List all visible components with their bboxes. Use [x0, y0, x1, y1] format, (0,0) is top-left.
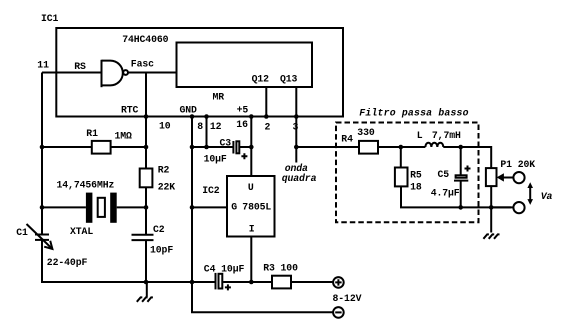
- wire R3 to plus terminal: [291, 281, 333, 283]
- terminal Va top: [513, 172, 524, 183]
- svg-text:Va: Va: [541, 191, 553, 202]
- wire R1 left lead: [42, 146, 92, 148]
- svg-text:Filtro passa basso: Filtro passa basso: [359, 107, 468, 118]
- wire ground to G pin: [192, 206, 227, 208]
- node onda quadra dot: [294, 145, 299, 150]
- resistor R3: [272, 276, 291, 289]
- node MR junction dot: [204, 145, 209, 150]
- node P1 bottom dot: [489, 205, 494, 210]
- svg-text:L: L: [417, 130, 423, 141]
- wire +5 column pin16 to regulator: [250, 117, 252, 177]
- wire input rail to R3: [251, 281, 272, 283]
- svg-text:8-12V: 8-12V: [333, 293, 362, 304]
- wire gate output to divider block: [128, 72, 177, 74]
- wire left column C1/R1/XTAL net: [41, 73, 43, 235]
- svg-text:C2: C2: [153, 224, 165, 235]
- wire Q13 pin 3: [295, 87, 297, 163]
- svg-text:8: 8: [197, 121, 203, 132]
- svg-text:16: 16: [236, 119, 248, 130]
- potentiometer P1: [486, 168, 497, 207]
- wire L to P1 column: [443, 147, 491, 168]
- svg-text:quadra: quadra: [282, 173, 317, 184]
- node L-C5 dot: [458, 145, 463, 150]
- wire pin10 to oscillator net: [145, 117, 147, 148]
- inductor L: [425, 143, 443, 147]
- node ground rail pin8 dot: [190, 280, 195, 285]
- node pin8 dot: [190, 114, 195, 119]
- node pin10 dot: [144, 114, 149, 119]
- wire R4 to L: [378, 146, 425, 148]
- terminal plus 8-12V: [333, 277, 344, 288]
- svg-text:R4: R4: [341, 133, 353, 144]
- svg-text:R3 100: R3 100: [263, 262, 298, 273]
- IC1 package outline 74HC4060: [56, 28, 343, 117]
- capacitor C2: [132, 207, 154, 282]
- wire onda quadra to R4: [296, 146, 359, 148]
- wire R1 right lead: [111, 146, 146, 148]
- svg-text:14,7456MHz: 14,7456MHz: [57, 179, 115, 190]
- wire RTC feedback drop inside package: [145, 73, 147, 117]
- svg-text:G: G: [231, 202, 237, 213]
- wire pin8 GND column: [191, 117, 193, 283]
- svg-text:12: 12: [210, 121, 222, 132]
- svg-text:10: 10: [159, 121, 171, 132]
- capacitor C4: [216, 273, 252, 291]
- node input rail dot: [249, 280, 254, 285]
- svg-text:18: 18: [410, 182, 422, 193]
- svg-text:C3: C3: [220, 137, 232, 148]
- wire C1 bottom to ground rail: [42, 240, 215, 282]
- node C5 bottom dot: [458, 205, 463, 210]
- node R1 left dot: [40, 145, 45, 150]
- node R4-R5-L dot: [399, 145, 404, 150]
- Va measurement arrow: [527, 182, 533, 205]
- resistor R2: [140, 147, 153, 207]
- svg-text:U: U: [248, 182, 254, 193]
- node pin2 dot: [264, 114, 269, 119]
- filter dashed box: [336, 123, 479, 223]
- svg-text:4.7µF: 4.7µF: [431, 188, 460, 199]
- svg-text:Fasc: Fasc: [131, 58, 154, 69]
- svg-text:IC2: IC2: [202, 185, 220, 196]
- node G dot: [190, 205, 195, 210]
- divider block of IC1: [177, 43, 313, 88]
- node pin12 dot: [204, 114, 209, 119]
- svg-text:22K: 22K: [158, 181, 176, 192]
- wire regulator input column: [250, 237, 252, 283]
- svg-text:Q13: Q13: [280, 73, 298, 84]
- node ground rail C2 dot: [144, 280, 149, 285]
- svg-text:GND: GND: [180, 105, 198, 116]
- svg-text:1MΩ: 1MΩ: [115, 130, 133, 141]
- crystal XTAL: [86, 193, 117, 223]
- capacitor C1 variable: [27, 224, 53, 249]
- node R1-R2 junction dot: [144, 145, 149, 150]
- terminal Va bottom: [513, 202, 524, 213]
- svg-text:330: 330: [357, 127, 375, 138]
- svg-text:R5: R5: [410, 170, 422, 181]
- svg-text:RTC: RTC: [121, 105, 139, 116]
- svg-text:10pF: 10pF: [150, 245, 173, 256]
- regulator IC2 7805L: [227, 176, 275, 237]
- wire ground net to C3: [192, 146, 233, 148]
- gate IC1a NAND oscillator: [102, 60, 129, 87]
- resistor R1: [92, 141, 111, 154]
- capacitor C5: [454, 147, 471, 207]
- wiper arrow of P1: [497, 173, 513, 181]
- wire minus rail: [192, 282, 333, 312]
- capacitor C3: [233, 141, 251, 159]
- svg-text:22-40pF: 22-40pF: [47, 257, 88, 268]
- svg-text:XTAL: XTAL: [70, 226, 93, 237]
- svg-text:I: I: [249, 224, 255, 235]
- wire bottom rail to Va terminal: [491, 206, 512, 208]
- svg-text:10µF: 10µF: [204, 153, 227, 164]
- svg-text:+5: +5: [237, 105, 249, 116]
- svg-text:C4 10µF: C4 10µF: [204, 264, 245, 275]
- wire Q12 pin 2: [265, 87, 267, 117]
- svg-text:11: 11: [37, 59, 49, 70]
- svg-text:IC1: IC1: [41, 13, 59, 24]
- wire RS input to gate: [42, 72, 102, 74]
- svg-text:R1: R1: [86, 128, 98, 139]
- node XTAL right dot: [144, 205, 149, 210]
- svg-text:R2: R2: [158, 164, 170, 175]
- svg-text:Q12: Q12: [252, 73, 270, 84]
- svg-text:7805L: 7805L: [242, 202, 271, 213]
- svg-text:74HC4060: 74HC4060: [122, 34, 168, 45]
- resistor R4: [359, 141, 378, 154]
- node C3 plus dot: [249, 145, 254, 150]
- wire pin12 MR column: [206, 117, 208, 148]
- svg-text:2: 2: [265, 121, 271, 132]
- ground symbol right: [483, 207, 499, 238]
- svg-text:C5: C5: [438, 169, 450, 180]
- svg-text:C1: C1: [16, 227, 28, 238]
- svg-text:MR: MR: [213, 91, 225, 102]
- svg-text:3: 3: [293, 121, 299, 132]
- resistor R5: [395, 147, 511, 207]
- node pin3 dot: [294, 114, 299, 119]
- svg-text:RS: RS: [74, 61, 86, 72]
- wire XTAL left lead: [42, 206, 86, 208]
- wire XTAL right lead: [117, 206, 146, 208]
- svg-text:7,7mH: 7,7mH: [432, 130, 461, 141]
- node C3 left dot: [190, 145, 195, 150]
- node pin16 dot: [249, 114, 254, 119]
- svg-text:P1 20K: P1 20K: [500, 159, 535, 170]
- terminal minus: [333, 307, 344, 318]
- ground symbol center: [137, 282, 153, 302]
- node XTAL left dot: [40, 205, 45, 210]
